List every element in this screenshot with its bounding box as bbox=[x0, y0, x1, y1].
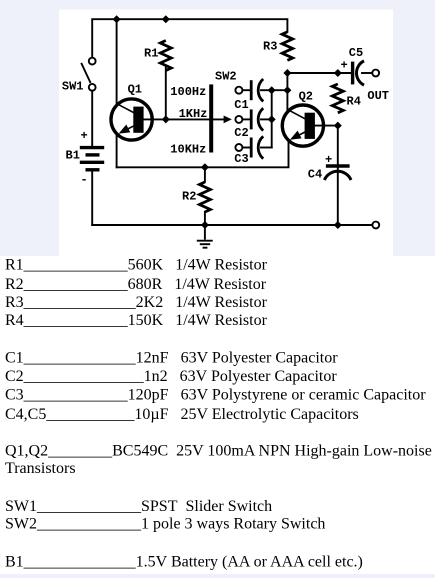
junction bottom rail C4 bbox=[334, 221, 342, 229]
battery B1 bbox=[80, 148, 104, 170]
wire Q1 base line to SW2 arrow bbox=[144, 118, 225, 120]
wire capacitor bus vertical bbox=[271, 90, 273, 147]
resistor R4 bbox=[332, 84, 343, 113]
SW2 contact 10KHz bbox=[235, 144, 242, 151]
wire R1 bottom to base node bbox=[165, 68, 167, 120]
wire C5 right to OUT bbox=[362, 72, 372, 74]
wire C3 right bbox=[261, 147, 272, 149]
transistor Q1 bbox=[111, 99, 152, 140]
lavender right column bbox=[393, 10, 435, 257]
svg-text:R1_____________560K 1/4W Res: R1_____________560K 1/4W Resistor bbox=[5, 257, 268, 274]
wire R3 line down to Q2 collector bbox=[286, 73, 288, 111]
resistor R1 bbox=[160, 41, 171, 71]
rotary switch SW2 rotor bar bbox=[209, 84, 213, 152]
svg-text:R4: R4 bbox=[347, 95, 361, 109]
wire cap bus to R3 line bbox=[272, 89, 288, 91]
svg-text:1KHz: 1KHz bbox=[179, 107, 208, 121]
SW2 wiper arrow bbox=[224, 116, 232, 124]
capacitor C2 bbox=[251, 108, 263, 130]
capacitor C4 electrolytic bbox=[324, 166, 351, 180]
svg-text:R2: R2 bbox=[182, 190, 196, 204]
svg-text:R3: R3 bbox=[263, 40, 277, 54]
wire bottom rail bbox=[92, 224, 372, 226]
svg-text:C4,C5___________10µF 25V Ele: C4,C5___________10µF 25V Electrolytic Ca… bbox=[5, 406, 359, 423]
wire top rail bbox=[92, 19, 287, 57]
wire C4 bottom to rail bbox=[337, 168, 339, 225]
svg-text:SW1_____________SPST Slider S: SW1_____________SPST Slider Switch bbox=[5, 498, 272, 515]
svg-text:SW2_____________1 pole 3 ways: SW2_____________1 pole 3 ways Rotary Swi… bbox=[5, 515, 325, 532]
svg-text:SW1: SW1 bbox=[62, 80, 84, 94]
svg-text:R4_____________150K 1/4W Res: R4_____________150K 1/4W Resistor bbox=[5, 312, 268, 329]
wire C1 left bbox=[242, 89, 250, 91]
wire R2 bottom bbox=[204, 212, 206, 225]
svg-text:-: - bbox=[81, 173, 88, 187]
SW2 contact 1KHz bbox=[235, 116, 242, 123]
svg-text:C2: C2 bbox=[234, 126, 248, 140]
svg-text:C4: C4 bbox=[308, 168, 322, 182]
svg-text:R1: R1 bbox=[144, 47, 158, 61]
capacitor C5 electrolytic bbox=[353, 61, 364, 85]
lavender bottom strip bbox=[0, 574, 435, 578]
junction top rail left bbox=[113, 15, 121, 23]
svg-text:C3_____________120pF 63V Pol: C3_____________120pF 63V Polystyrene or … bbox=[5, 386, 426, 403]
svg-text:R2_____________680R 1/4W Res: R2_____________680R 1/4W Resistor bbox=[5, 276, 267, 293]
svg-text:Q2: Q2 bbox=[299, 90, 313, 104]
svg-text:+: + bbox=[341, 59, 348, 73]
junction bottom rail R2 bbox=[201, 221, 209, 229]
SW2 contact 100Hz bbox=[235, 87, 242, 94]
junction emitter/R2 node bbox=[201, 163, 209, 171]
svg-text:C1______________12nF 63V Pol: C1______________12nF 63V Polyester Capac… bbox=[5, 349, 338, 366]
wire OUT bottom stub bbox=[338, 224, 373, 226]
svg-text:C3: C3 bbox=[234, 152, 248, 166]
wire battery top bbox=[91, 91, 93, 146]
svg-text:C1: C1 bbox=[234, 98, 248, 112]
svg-text:B1: B1 bbox=[66, 149, 80, 163]
svg-text:+: + bbox=[325, 153, 332, 167]
wire battery bottom to rail bbox=[91, 172, 93, 226]
wire C2 right bbox=[261, 118, 272, 120]
ground bbox=[197, 225, 213, 248]
resistor R2 bbox=[199, 182, 210, 212]
switch SW1 bbox=[81, 58, 95, 91]
schematic white panel bbox=[59, 10, 393, 257]
junction cap bus C2 bbox=[268, 115, 276, 123]
svg-text:Q1: Q1 bbox=[128, 82, 142, 96]
resistor R3 bbox=[282, 32, 293, 61]
junction cap bus C1 bbox=[268, 86, 276, 94]
svg-text:Q1,Q2________BC549C 25V 100mA: Q1,Q2________BC549C 25V 100mA NPN High-g… bbox=[5, 442, 432, 459]
svg-text:Transistors: Transistors bbox=[5, 460, 76, 477]
wire R2 top bbox=[204, 167, 206, 182]
svg-text:100Hz: 100Hz bbox=[170, 85, 206, 99]
capacitor C1 bbox=[251, 79, 263, 101]
terminal OUT bottom bbox=[372, 222, 379, 229]
wire C2 left bbox=[242, 118, 250, 120]
wire emitter rail bbox=[117, 140, 289, 167]
svg-text:+: + bbox=[81, 129, 88, 143]
junction R3 line C1 level bbox=[283, 86, 291, 94]
lavender left column bbox=[0, 10, 59, 257]
junction R3 bottom node bbox=[283, 69, 291, 77]
wire Q2 base to R4 node bbox=[315, 125, 338, 127]
wire C1 right bbox=[261, 89, 272, 91]
terminal OUT top bbox=[372, 70, 379, 77]
svg-text:B1______________1.5V Battery (: B1______________1.5V Battery (AA or AAA … bbox=[5, 554, 363, 571]
junction base node bbox=[162, 115, 170, 123]
svg-text:SW2: SW2 bbox=[215, 70, 237, 84]
wire Q1 emitter drop bbox=[116, 135, 118, 168]
capacitor C3 bbox=[251, 136, 263, 158]
junction top rail right bbox=[162, 15, 170, 23]
wire Q1 collector drop bbox=[116, 19, 118, 104]
svg-text:R3______________2K2 1/4W Res: R3______________2K2 1/4W Resistor bbox=[5, 294, 268, 311]
wire C3 left bbox=[242, 147, 250, 149]
junction Q2 base/R4/C4 node bbox=[334, 122, 342, 130]
svg-text:10KHz: 10KHz bbox=[170, 143, 206, 157]
svg-text:C5: C5 bbox=[349, 46, 363, 60]
lavender top strip bbox=[0, 0, 435, 10]
svg-text:OUT: OUT bbox=[367, 89, 389, 103]
wire R3 bottom node to C5/R4 bbox=[287, 72, 350, 74]
junction C5/R4 node bbox=[334, 69, 342, 77]
transistor Q2 bbox=[282, 105, 323, 146]
wire R4 node down to C4 bbox=[337, 126, 339, 164]
svg-text:C2_______________1n2 63V Pol: C2_______________1n2 63V Polyester Capac… bbox=[5, 368, 337, 385]
